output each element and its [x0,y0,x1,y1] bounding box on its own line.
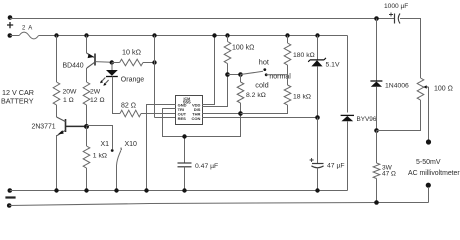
wire pot bottom to return node [377,100,421,131]
node ground x317 [315,188,319,192]
node rail2 x227 [225,33,229,37]
switch S1 hot contact [263,68,266,71]
pot wiper arrow [426,86,429,88]
resistor R8 180k [284,43,291,65]
wire THR pin [202,113,241,115]
switch S2 lever [117,150,121,165]
node bottom rail x376 [374,200,379,205]
svg-text:18 kΩ: 18 kΩ [293,93,311,100]
wire rail to R8 [287,36,289,44]
svg-text:AC millivoltmeter: AC millivoltmeter [408,170,460,177]
node meter terminal bottom [426,183,431,188]
wire 82ohm to IC OUT pin [141,113,176,115]
node rail2 x154 [152,33,156,37]
diode D3 BYV96 [341,114,354,116]
potentiometer P1 100ohm [417,78,424,100]
wire rail to zener [317,36,319,60]
node ground x56 [54,188,58,192]
wire meter bottom to rail [428,187,430,203]
svg-text:1000 µF: 1000 µF [384,3,408,10]
node LED anode junction [110,60,114,64]
node timing cap top [182,134,186,138]
svg-text:BD440: BD440 [63,63,84,70]
svg-text:100 kΩ: 100 kΩ [232,44,254,51]
svg-text:20W: 20W [63,89,78,96]
wire D4 to pot return node [376,87,378,131]
wire node to R10 [376,131,378,164]
svg-text:47 µF: 47 µF [327,162,345,169]
resistor R3 1k [83,146,90,168]
svg-text:180 kΩ: 180 kΩ [293,52,315,59]
battery minus sign [5,196,15,198]
wire x154 riser to RES pin [155,36,177,118]
node ground x146 [144,188,148,192]
svg-text:12 Ω: 12 Ω [90,97,105,104]
wire X1 branch from base node [87,126,113,150]
wire R1 to Q2 collector [56,105,58,117]
node Q2 base junction [84,124,89,129]
wire R10 to bottom rail [376,179,378,203]
wire R3 to ground [86,168,88,191]
svg-text:0.47 µF: 0.47 µF [195,163,218,170]
wire node to R3 [86,127,88,147]
svg-text:100 Ω: 100 Ω [434,85,453,92]
svg-text:X10: X10 [125,141,138,148]
svg-text:2W: 2W [90,89,101,96]
node rail2 x317 [315,33,319,37]
svg-text:10 kΩ: 10 kΩ [122,47,142,56]
node rail2 x214 [212,33,216,37]
resistor R5 82ohm [120,110,141,117]
diode D4 1N4006 [370,80,382,82]
node rail2 x86 [84,33,88,37]
node ground x86 [84,188,88,192]
svg-text:hot: hot [259,58,269,67]
node battery positive terminal (top) [8,15,13,20]
wire zener to CON node [317,66,319,117]
wire DIS pin riser [202,75,228,107]
svg-text:82 Ω: 82 Ω [121,102,136,109]
svg-text:cold: cold [255,81,268,90]
wire C3 to ground [317,169,319,191]
node pot return junction [374,128,379,133]
wire rail to R6 [227,36,229,42]
IC U1 555 timer [176,96,203,125]
wire GND pin to ground rail [147,105,177,191]
svg-text:2 A: 2 A [22,26,33,32]
wire R6 to DIS node [227,64,229,75]
LED D1 Orange [111,63,113,71]
wire node to C3 [317,118,319,164]
wire 8.2k to THR node [240,103,242,114]
wire DIS node to 8.2k node [228,74,241,76]
wire right branch down to BYV96 [347,36,349,113]
node rail2 x287 [285,33,289,37]
node THR junction [238,111,243,116]
wire normal contact to divider tap [266,74,287,76]
resistor R9 18k [284,85,291,105]
resistor R10 47ohm 3W [373,163,380,178]
svg-text:2N3771: 2N3771 [32,123,56,130]
capacitor C2 0.47uF [184,137,186,163]
node 8.2k top [238,72,243,77]
wire cap to right corner down to pot [400,19,421,79]
svg-text:8.2 kΩ: 8.2 kΩ [246,92,266,99]
wire R8 to normal tap to R9 [287,65,289,85]
resistor R6 100k [224,42,231,64]
wire 8.2k node down [240,75,242,83]
wire bottom meter rail [9,203,428,206]
svg-text:BATTERY: BATTERY [1,96,34,105]
svg-text:CON: CON [192,116,201,121]
node 10k right [152,60,156,64]
wire VDD pin riser to rail [202,36,215,105]
switch S2 X10 contact tick [120,148,122,151]
node ground x184 [182,188,186,192]
wire THR node to 18k bottom [241,105,288,114]
zener diode D2 5.1V [308,58,326,62]
svg-text:Orange: Orange [121,77,144,84]
node rail1 x376 [374,16,379,21]
battery plus sign [7,22,13,28]
svg-text:X1: X1 [101,141,110,148]
wire top positive rail [10,18,394,20]
svg-text:5-50mV: 5-50mV [416,159,441,166]
wire TRI pin loop to timing node [163,109,241,137]
svg-text:BYV96: BYV96 [357,116,377,123]
wire R2 to base node [86,105,88,127]
svg-text:47 Ω: 47 Ω [382,171,396,178]
node rail2 x56 [54,33,58,37]
wire CON pin to zener node [202,117,318,119]
capacitor C3 47uF [312,163,324,165]
wire Q2 emitter to ground [56,135,58,191]
fuse F1 2A [10,35,19,37]
wire ground rail [10,190,348,192]
LED light arrows [101,78,106,83]
svg-text:1N4006: 1N4006 [385,82,409,89]
wire wiper to meter terminal [428,87,430,140]
resistor R7 8.2k [237,82,244,103]
resistor R1 1ohm 20W [53,82,60,105]
node battery negative terminal (bottom) [8,188,13,193]
svg-text:RES: RES [178,116,187,121]
wire LED cathode down to 82ohm corner [113,77,121,114]
resistor R4 10k [112,62,120,64]
node meter terminal top [426,139,431,144]
node CON junction [315,115,320,120]
wire rail1 to D4 [376,19,378,81]
node switch S2 X1 contact [111,149,114,152]
wire +12V rail [39,35,348,37]
resistor R2 12ohm 2W [83,82,90,105]
node ground x116 [114,188,118,192]
svg-text:5.1V: 5.1V [326,62,340,69]
switch S1 normal contact [265,73,268,76]
wire down to Q1 emitter [86,36,88,54]
capacitor C1 1000uF [394,14,396,24]
node DIS junction [225,72,230,77]
svg-text:1 kΩ: 1 kΩ [93,152,107,159]
svg-text:1 Ω: 1 Ω [63,97,74,104]
wire down to R1 [56,36,58,83]
switch S1 lever [241,71,264,74]
wire Q1 collector to R2 [86,68,88,82]
